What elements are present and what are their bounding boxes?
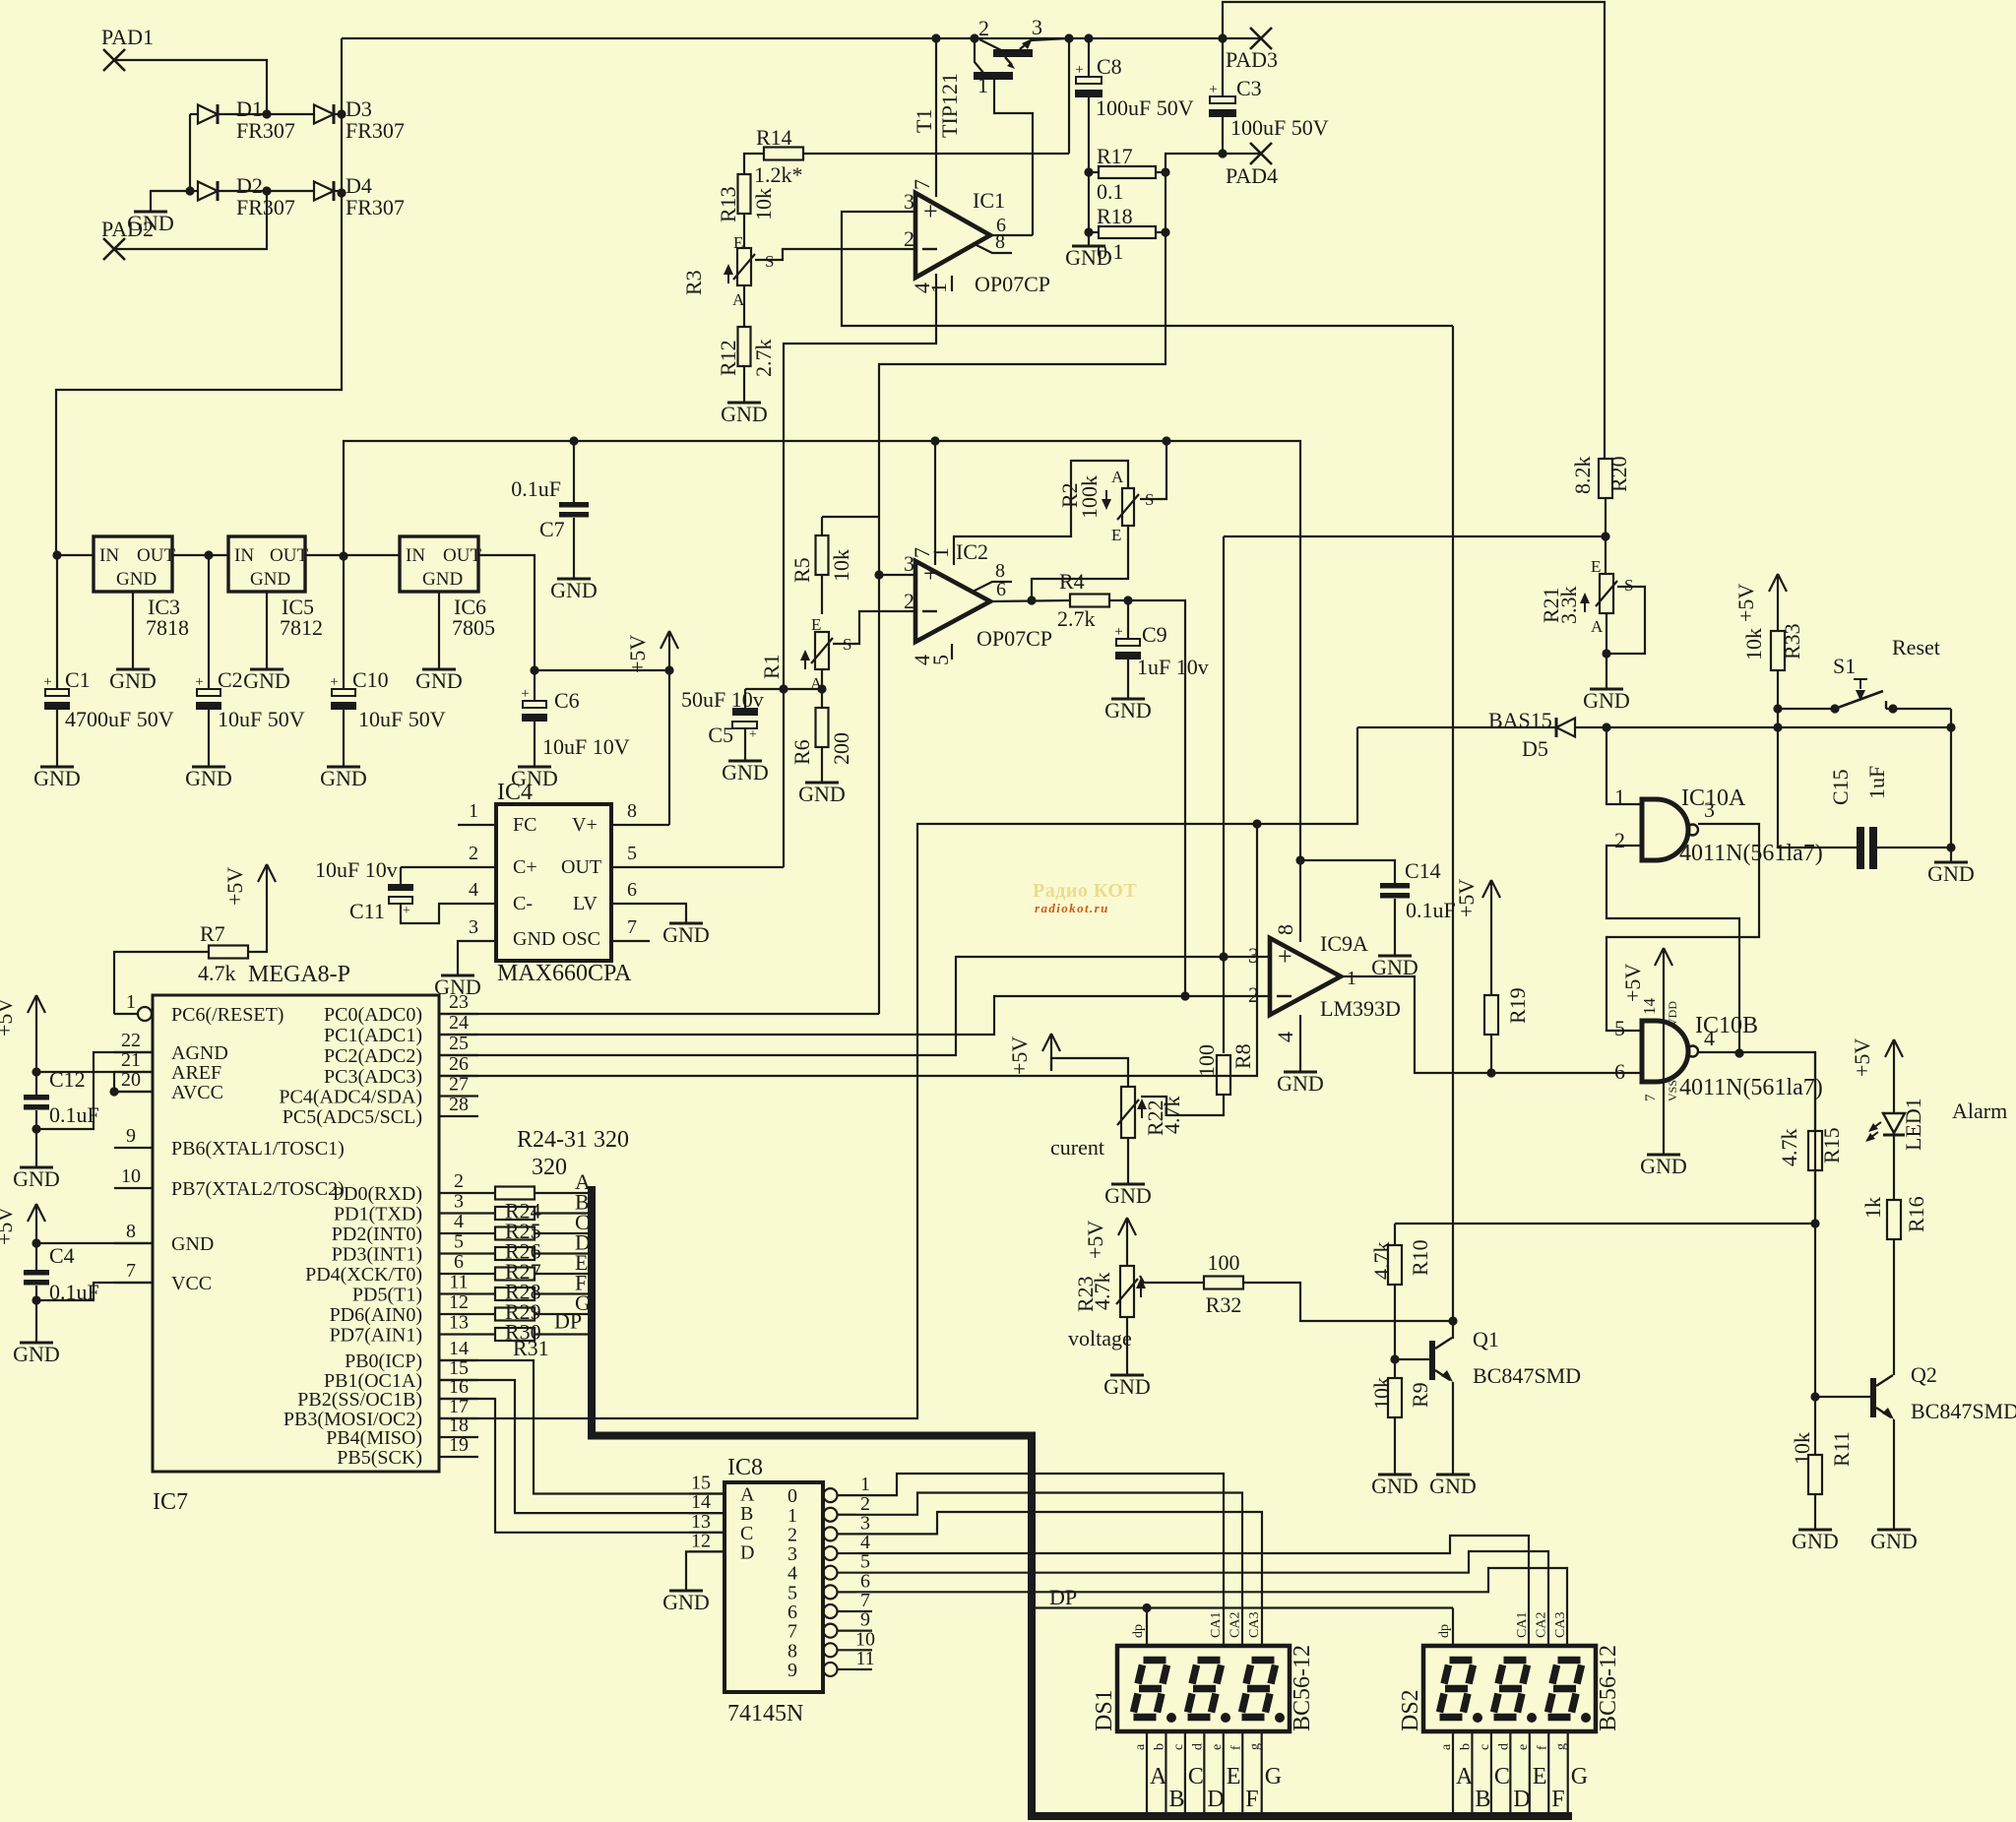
- svg-text:5: 5: [928, 655, 953, 665]
- svg-text:2: 2: [1614, 828, 1625, 852]
- voltage regulator IC6 7805: [400, 536, 535, 670]
- wire R14 to R13: [744, 154, 764, 174]
- wire reset pin1 to R7: [114, 952, 209, 1014]
- svg-text:V+: V+: [572, 814, 598, 836]
- svg-text:4.7k: 4.7k: [1369, 1242, 1394, 1281]
- capacitor C9 1uF 10v: [1114, 600, 1208, 699]
- pin 9 IC8 output 7: [787, 1609, 872, 1643]
- svg-text:1.2k*: 1.2k*: [754, 162, 803, 187]
- wire IC8 out0 to DS1 CA1: [856, 1474, 1224, 1646]
- voltage regulator IC5 7812: [228, 536, 400, 669]
- diode D5 BAS15: [1357, 708, 1951, 761]
- svg-text:6: 6: [996, 215, 1006, 236]
- svg-text:R16: R16: [1904, 1196, 1928, 1232]
- svg-text:10uF 10V: 10uF 10V: [542, 734, 630, 759]
- svg-text:C4: C4: [49, 1243, 75, 1268]
- op-amp IC1 OP07CP: [904, 179, 1050, 296]
- wire IC8 out3 to DS2 CA1: [856, 1536, 1529, 1646]
- pin IC4 pin2 C+: [401, 843, 496, 867]
- svg-text:OUT: OUT: [561, 856, 601, 878]
- svg-text:GND: GND: [550, 578, 598, 602]
- svg-text:AGND: AGND: [171, 1042, 228, 1064]
- svg-text:PC2(ADC2): PC2(ADC2): [324, 1045, 422, 1067]
- wire DP line: [1034, 1585, 1453, 1646]
- svg-text:GND: GND: [1277, 1071, 1324, 1096]
- svg-text:3: 3: [469, 916, 478, 938]
- capacitor C3 100uF 50V: [1209, 38, 1329, 158]
- svg-text:R33: R33: [1780, 623, 1804, 660]
- svg-text:IC10B: IC10B: [1695, 1013, 1758, 1038]
- svg-text:+: +: [923, 197, 938, 225]
- svg-text:GND: GND: [415, 668, 463, 693]
- svg-text:7818: 7818: [146, 615, 189, 640]
- ground IC3 GND: [109, 668, 157, 693]
- wire AREF AVCC to +5V: [36, 1072, 153, 1097]
- svg-text:f: f: [1228, 1745, 1243, 1750]
- svg-text:Радио КОТ: Радио КОТ: [1033, 880, 1137, 902]
- svg-text:1: 1: [928, 547, 953, 558]
- ground IC8 GND: [662, 1590, 710, 1614]
- svg-text:200: 200: [829, 732, 853, 765]
- svg-text:OUT: OUT: [270, 545, 308, 566]
- svg-text:GND: GND: [662, 922, 710, 947]
- decoder IC8 74145N: [724, 1455, 823, 1727]
- svg-text:BAS15: BAS15: [1488, 708, 1552, 732]
- svg-text:14: 14: [449, 1338, 469, 1359]
- svg-text:GND: GND: [13, 1342, 60, 1366]
- wire Q1 emitter to ground: [1452, 1382, 1454, 1475]
- power +5V arrow C4: [0, 1204, 45, 1245]
- svg-text:IC8: IC8: [727, 1455, 763, 1480]
- pin 10 IC7: [114, 1165, 345, 1200]
- diode D1 FR307: [190, 96, 295, 143]
- svg-text:OP07CP: OP07CP: [976, 626, 1052, 651]
- svg-text:1: 1: [469, 800, 478, 822]
- svg-text:R6: R6: [789, 739, 814, 765]
- svg-text:C: C: [1188, 1764, 1204, 1790]
- ground S1 GND: [1927, 861, 1975, 886]
- svg-text:dp: dp: [1131, 1624, 1146, 1638]
- pin 10 IC8 output 8: [787, 1628, 875, 1662]
- voltage regulator IC3 7818: [52, 536, 228, 669]
- pin 23 IC7: [324, 991, 478, 1026]
- ground R9 GND: [1371, 1474, 1418, 1498]
- svg-text:G: G: [1265, 1764, 1282, 1790]
- svg-text:FC: FC: [513, 814, 536, 836]
- resistor R10 4.7k: [1369, 1224, 1432, 1364]
- svg-text:0.1uF: 0.1uF: [1406, 898, 1456, 922]
- svg-text:R19: R19: [1505, 987, 1530, 1024]
- wire PAD2 to bridge: [114, 191, 267, 249]
- pin 16 IC7: [297, 1376, 478, 1411]
- svg-text:C7: C7: [539, 517, 565, 541]
- svg-text:dp: dp: [1437, 1624, 1452, 1638]
- svg-text:4.7k: 4.7k: [1777, 1129, 1801, 1167]
- transistor Q2 BC847SMD: [1815, 1362, 2016, 1423]
- svg-text:DP: DP: [1049, 1585, 1077, 1609]
- pin 13 IC8 input C: [689, 1511, 753, 1544]
- wire sense line to Q1: [1452, 326, 1454, 1339]
- svg-text:13: 13: [449, 1312, 469, 1334]
- pin 28 IC7: [283, 1094, 478, 1128]
- svg-text:MAX660CPA: MAX660CPA: [497, 961, 632, 986]
- potentiometer R3: [681, 233, 774, 309]
- svg-text:4: 4: [454, 1211, 464, 1232]
- svg-text:1uF 10v: 1uF 10v: [1137, 655, 1209, 679]
- stub IC4 pin1 FC: [458, 800, 496, 825]
- svg-text:GND: GND: [109, 668, 157, 693]
- svg-text:R31: R31: [513, 1336, 549, 1360]
- svg-text:GND: GND: [1429, 1474, 1477, 1498]
- power +5V arrow R23: [1083, 1218, 1136, 1259]
- wire R10 line to latch output: [1395, 1223, 1815, 1225]
- svg-text:S: S: [1624, 576, 1633, 595]
- svg-text:OSC: OSC: [562, 928, 600, 950]
- ground C4 GND: [13, 1342, 60, 1366]
- svg-text:R8: R8: [1230, 1043, 1255, 1069]
- charge pump IC4 MAX660CPA: [496, 780, 632, 986]
- pin 22 IC7: [114, 1030, 228, 1064]
- wire PB2 to IC8 C: [439, 1399, 724, 1533]
- resistor R31 320: [478, 1309, 590, 1345]
- svg-text:C+: C+: [513, 856, 537, 878]
- resistor R27 320: [478, 1230, 591, 1264]
- svg-text:GND: GND: [1792, 1529, 1839, 1553]
- comparator IC9A LM393D: [1248, 924, 1401, 1042]
- svg-text:1: 1: [977, 73, 988, 97]
- capacitor C11 10uF 10v: [315, 857, 496, 923]
- svg-text:IC7: IC7: [153, 1489, 188, 1515]
- svg-text:25: 25: [449, 1033, 469, 1054]
- diode D3 FR307: [314, 96, 405, 143]
- svg-text:D: D: [1513, 1787, 1530, 1812]
- svg-text:D5: D5: [1522, 736, 1548, 761]
- wire IC2 pin3 from shunt: [874, 570, 915, 579]
- svg-text:A: A: [1150, 1764, 1167, 1790]
- svg-text:R24-31 320: R24-31 320: [517, 1127, 629, 1153]
- svg-text:VDD: VDD: [1666, 1001, 1679, 1027]
- resistor R7 4.7k: [198, 902, 267, 985]
- svg-text:C: C: [1494, 1764, 1510, 1790]
- resistor R29 320: [478, 1271, 590, 1304]
- svg-text:e: e: [1210, 1744, 1225, 1750]
- svg-text:A: A: [1111, 468, 1124, 486]
- svg-text:19: 19: [449, 1434, 469, 1456]
- wire IC8 out4 to DS2 CA2: [856, 1551, 1548, 1646]
- pin 14 IC7: [345, 1338, 478, 1372]
- pin 2 IC8 output 1: [787, 1493, 870, 1527]
- svg-text:GND: GND: [320, 766, 367, 790]
- wire IC9A pin4 ground: [1299, 1015, 1301, 1072]
- resistor R17 0.1: [1089, 144, 1170, 204]
- ground C8 GND: [1065, 245, 1112, 270]
- svg-text:c: c: [1171, 1744, 1186, 1750]
- wire R3 to R12: [743, 285, 745, 327]
- svg-text:PD6(AIN0): PD6(AIN0): [330, 1304, 422, 1326]
- svg-text:R18: R18: [1097, 204, 1133, 228]
- resistor R8 100: [1166, 957, 1255, 1115]
- svg-text:GND: GND: [722, 760, 769, 785]
- svg-text:LM393D: LM393D: [1320, 996, 1401, 1021]
- resistor R5 10k: [789, 517, 879, 614]
- wire D5 to IC10A pin1: [1606, 727, 1642, 804]
- wire R2 E to output: [1032, 526, 1128, 601]
- svg-text:1: 1: [1347, 968, 1356, 989]
- svg-text:CA2: CA2: [1228, 1612, 1243, 1638]
- wire IC9A pin2 current avg: [439, 991, 1270, 1035]
- svg-text:4011N(561la7): 4011N(561la7): [1679, 1075, 1823, 1100]
- pin 12 IC8 input D: [689, 1530, 754, 1563]
- svg-text:10uF 10v: 10uF 10v: [315, 857, 398, 882]
- label resistor array R24-31 320: [517, 1127, 629, 1180]
- wire D3 cathode to bus: [334, 109, 346, 118]
- pin 20 IC7: [114, 1069, 223, 1103]
- svg-text:8: 8: [627, 800, 637, 822]
- pin 27 IC7: [279, 1074, 478, 1108]
- resistor R12 2.7k: [716, 327, 776, 377]
- svg-text:IC4: IC4: [497, 780, 533, 805]
- pin 3 IC7: [334, 1191, 478, 1225]
- pin 1 IC7: [114, 991, 283, 1026]
- pin 24 IC7: [324, 1012, 478, 1046]
- capacitor C15 1uF: [1778, 727, 1956, 869]
- svg-text:AVCC: AVCC: [171, 1082, 223, 1103]
- ground bridge GND: [127, 191, 190, 235]
- svg-text:11: 11: [449, 1272, 468, 1293]
- ground IC4 LV GND: [662, 922, 710, 947]
- svg-text:+: +: [1209, 82, 1217, 97]
- svg-text:VSS: VSS: [1666, 1080, 1679, 1101]
- resistor R15 4.7k: [1777, 1052, 1844, 1224]
- svg-text:a: a: [1133, 1743, 1148, 1750]
- svg-text:320: 320: [532, 1155, 567, 1180]
- svg-text:FR307: FR307: [236, 118, 295, 143]
- power +5V arrow LED1: [1850, 1038, 1903, 1113]
- svg-text:100k: 100k: [1077, 475, 1102, 519]
- svg-text:E: E: [811, 615, 821, 634]
- svg-text:+: +: [1114, 624, 1122, 640]
- svg-text:+: +: [1075, 62, 1083, 78]
- ground C7 GND: [550, 578, 598, 602]
- svg-text:2: 2: [454, 1170, 464, 1192]
- svg-text:PB4(MISO): PB4(MISO): [326, 1427, 422, 1449]
- svg-text:CA3: CA3: [1247, 1612, 1262, 1638]
- wire PAD1 to bridge: [114, 60, 267, 114]
- svg-text:3: 3: [454, 1191, 464, 1213]
- capacitor C2 10uF 50V: [195, 555, 304, 767]
- svg-text:OP07CP: OP07CP: [975, 272, 1050, 296]
- ground IC9A GND: [1277, 1071, 1324, 1096]
- resistor R16 1k: [1860, 1136, 1928, 1375]
- wire voltage sense y=545: [1224, 536, 1606, 574]
- ground C14 GND: [1371, 955, 1418, 979]
- svg-text:+5V: +5V: [1850, 1038, 1874, 1077]
- svg-text:100uF 50V: 100uF 50V: [1096, 95, 1194, 120]
- svg-text:G: G: [1571, 1764, 1588, 1790]
- wire PC0 ADC0 line: [439, 1013, 879, 1015]
- svg-text:2: 2: [1248, 982, 1259, 1007]
- svg-text:IN: IN: [406, 545, 425, 566]
- wire rectifier bus: [56, 38, 342, 555]
- svg-text:C6: C6: [554, 688, 580, 713]
- resistor R18 0.1: [1089, 204, 1170, 264]
- svg-text:22: 22: [121, 1030, 141, 1051]
- resistor R24 320: [478, 1169, 591, 1200]
- svg-text:100uF 50V: 100uF 50V: [1230, 115, 1329, 140]
- svg-text:g: g: [1554, 1743, 1569, 1750]
- svg-text:10k: 10k: [1369, 1377, 1394, 1410]
- wire IC8 out2 to DS1 CA3: [856, 1512, 1262, 1646]
- pin 11 IC7: [352, 1272, 478, 1306]
- wire IC8 D input to ground: [686, 1551, 724, 1591]
- resistor R26 320: [478, 1210, 590, 1243]
- power +5V arrow C12: [0, 995, 45, 1037]
- svg-text:R10: R10: [1408, 1239, 1432, 1276]
- svg-text:C5: C5: [708, 723, 733, 747]
- wire R21 to ground: [1602, 613, 1610, 689]
- pin 13 IC7: [330, 1312, 478, 1347]
- wire latch set node down: [1777, 709, 1779, 727]
- svg-text:2.7k: 2.7k: [1057, 606, 1096, 631]
- svg-text:PB0(ICP): PB0(ICP): [345, 1351, 422, 1372]
- svg-text:Q1: Q1: [1473, 1327, 1499, 1351]
- wire IC10A pin2 feedback: [1606, 846, 1744, 1058]
- transistor Q1 BC847SMD: [1395, 1327, 1581, 1388]
- wire IC9A out to IC10B pin6: [1341, 976, 1642, 1078]
- svg-text:PD1(TXD): PD1(TXD): [334, 1204, 422, 1225]
- svg-text:7: 7: [1643, 1094, 1659, 1101]
- capacitor C7 0.1uF: [511, 441, 589, 579]
- pin 21 IC7: [114, 1049, 221, 1084]
- svg-text:R3: R3: [681, 270, 706, 295]
- svg-text:E: E: [1111, 526, 1121, 544]
- wire IC8 out1 to DS1 CA2: [856, 1493, 1242, 1647]
- pin 17 IC7: [283, 1396, 478, 1430]
- svg-text:12: 12: [449, 1291, 469, 1313]
- svg-text:18: 18: [449, 1414, 469, 1436]
- ground R6 GND: [798, 782, 846, 806]
- svg-text:B: B: [740, 1503, 753, 1525]
- pin 7 IC7: [114, 1260, 212, 1294]
- svg-text:E: E: [1533, 1764, 1547, 1790]
- svg-text:+5V: +5V: [1620, 964, 1645, 1002]
- svg-text:+: +: [403, 904, 410, 918]
- svg-text:R1: R1: [759, 654, 784, 679]
- svg-text:MEGA8-P: MEGA8-P: [248, 962, 350, 987]
- svg-text:GND: GND: [1870, 1529, 1918, 1553]
- svg-text:+5V: +5V: [0, 998, 17, 1037]
- svg-text:0.1: 0.1: [1097, 239, 1124, 264]
- svg-text:IC10A: IC10A: [1681, 785, 1746, 811]
- svg-text:PB7(XTAL2/TOSC2): PB7(XTAL2/TOSC2): [171, 1178, 345, 1200]
- svg-text:b: b: [1458, 1743, 1473, 1750]
- svg-text:26: 26: [449, 1053, 469, 1075]
- op-amp IC2 OP07CP: [904, 539, 1052, 665]
- resistor R32 100: [1204, 1250, 1458, 1326]
- wire D2-D4: [219, 186, 314, 195]
- svg-text:g: g: [1248, 1743, 1263, 1750]
- svg-text:C3: C3: [1236, 76, 1262, 100]
- ground C9 GND: [1104, 698, 1152, 723]
- capacitor C8 100uF 50V: [1075, 33, 1194, 246]
- svg-text:PB6(XTAL1/TOSC1): PB6(XTAL1/TOSC1): [171, 1138, 345, 1160]
- svg-text:GND: GND: [1583, 688, 1630, 713]
- ground R12 GND: [721, 402, 768, 426]
- pin 6 IC7: [305, 1251, 478, 1286]
- pin 15 IC7: [324, 1357, 478, 1392]
- pin 7 IC8 output 6: [787, 1590, 872, 1623]
- svg-text:2.7k: 2.7k: [751, 340, 776, 378]
- capacitor C12 0.1uF: [24, 1033, 99, 1167]
- svg-text:C-: C-: [513, 893, 533, 914]
- svg-text:28: 28: [449, 1094, 469, 1115]
- mcu IC7 MEGA8-P: [153, 962, 439, 1515]
- svg-text:GND: GND: [721, 402, 768, 426]
- svg-text:+: +: [43, 674, 51, 690]
- svg-text:3: 3: [904, 189, 914, 214]
- svg-text:F: F: [1551, 1787, 1564, 1812]
- pin IC4 pin8 V+: [611, 800, 669, 825]
- wire GND pin8: [36, 1242, 153, 1244]
- resistor R33 10k: [1741, 611, 1804, 714]
- wire top-right loop to R20: [1218, 2, 1605, 459]
- svg-text:R17: R17: [1097, 144, 1133, 168]
- svg-text:A: A: [1456, 1764, 1474, 1790]
- svg-text:S: S: [765, 252, 774, 271]
- wire Q2 emitter to ground: [1893, 1419, 1895, 1530]
- svg-text:27: 27: [449, 1074, 469, 1096]
- svg-text:GND: GND: [662, 1590, 710, 1614]
- wire IC1 pin3 input: [842, 212, 1453, 326]
- wire T1 collector sense drop: [1068, 38, 1070, 154]
- wire R12 to ground: [743, 366, 745, 403]
- svg-text:R4: R4: [1059, 569, 1085, 594]
- svg-text:3: 3: [1032, 15, 1042, 39]
- svg-text:f: f: [1535, 1745, 1549, 1750]
- potentiometer R22 4.7k curent: [1050, 1087, 1184, 1160]
- capacitor C10 10uF 50V: [330, 556, 445, 767]
- svg-text:3.3k: 3.3k: [1556, 587, 1581, 625]
- svg-text:curent: curent: [1050, 1135, 1104, 1160]
- wire R3 wiper to IC1 pin2: [755, 249, 913, 260]
- potentiometer R23 4.7k voltage: [1068, 1255, 1205, 1351]
- svg-text:GND: GND: [1103, 1374, 1151, 1399]
- wire IC8 out5 to DS2 CA3: [856, 1568, 1567, 1646]
- svg-text:C15: C15: [1828, 769, 1853, 805]
- svg-text:4.7k: 4.7k: [198, 961, 236, 985]
- pin IC4 pin5 OUT: [611, 843, 784, 867]
- power +5V arrow R19: [1454, 879, 1500, 917]
- nand gate IC10A 4011N: [1614, 785, 1823, 866]
- svg-text:DP: DP: [554, 1309, 582, 1334]
- svg-text:5: 5: [627, 843, 637, 864]
- svg-text:B: B: [1475, 1787, 1490, 1812]
- svg-text:1: 1: [126, 991, 136, 1013]
- svg-text:GND: GND: [1371, 1474, 1418, 1498]
- svg-text:PC0(ADC0): PC0(ADC0): [324, 1004, 422, 1026]
- svg-text:7: 7: [627, 916, 637, 938]
- wire +12V rail: [344, 436, 1300, 860]
- ground IC4 GND: [434, 974, 481, 999]
- wire PB1 to IC8 B: [439, 1380, 724, 1513]
- svg-text:GND: GND: [1104, 698, 1152, 723]
- transistor T1 TIP121: [912, 15, 1074, 138]
- svg-text:PC3(ADC3): PC3(ADC3): [324, 1066, 422, 1088]
- svg-text:GND: GND: [1104, 1183, 1152, 1208]
- svg-text:PD4(XCK/T0): PD4(XCK/T0): [305, 1264, 422, 1286]
- svg-text:D: D: [740, 1541, 754, 1563]
- svg-text:+5V: +5V: [625, 635, 650, 673]
